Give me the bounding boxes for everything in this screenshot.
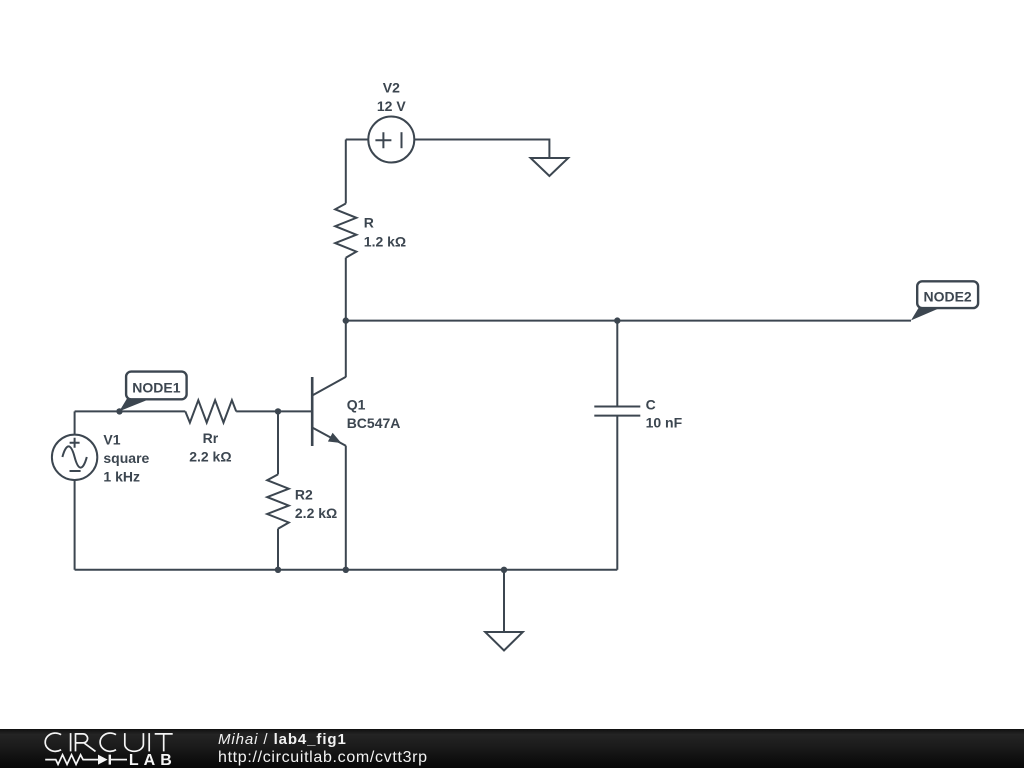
V1 plus symbol xyxy=(70,438,80,448)
svg-text:NODE1: NODE1 xyxy=(132,379,180,395)
svg-text:Rr: Rr xyxy=(203,430,219,446)
wire NODE1 to Rr xyxy=(75,410,186,412)
V2 plus symbol xyxy=(375,132,391,148)
resistor R2 zigzag xyxy=(267,474,289,528)
svg-text:2.2 kΩ: 2.2 kΩ xyxy=(295,505,337,521)
resistor R zigzag xyxy=(335,204,356,258)
logo letter C xyxy=(100,733,116,751)
transistor Q1 emitter diagonal xyxy=(312,428,346,446)
wire node horizontal NODE2 net xyxy=(346,320,911,322)
wire emitter vertical xyxy=(345,446,347,570)
svg-text:V1: V1 xyxy=(103,431,120,447)
svg-text:NODE2: NODE2 xyxy=(923,289,971,305)
transistor Q1 base bar xyxy=(311,377,314,446)
junction node at R bottom xyxy=(343,317,349,323)
footer titles xyxy=(218,731,428,767)
svg-text:10 nF: 10 nF xyxy=(646,415,683,431)
logo letter I xyxy=(70,733,72,751)
wire R bottom to node xyxy=(345,258,347,321)
wire V2 left vertical drop to R xyxy=(345,140,347,204)
svg-text:Q1: Q1 xyxy=(347,396,366,412)
svg-text:LAB: LAB xyxy=(129,752,177,768)
wire V2 right to ground xyxy=(408,140,549,159)
wire ground stem bottom xyxy=(503,570,505,632)
logo letter I xyxy=(148,733,150,751)
logo diode bar xyxy=(109,755,111,765)
ground top right triangle xyxy=(531,158,569,176)
svg-text:12 V: 12 V xyxy=(377,98,406,114)
svg-text:2.2 kΩ: 2.2 kΩ xyxy=(189,449,231,465)
NODE2 flag tail xyxy=(911,308,941,321)
wire bottom rail xyxy=(75,569,618,571)
wire capacitor bottom lead xyxy=(616,416,618,570)
V1 sine wave xyxy=(62,446,86,467)
svg-text:V2: V2 xyxy=(383,79,400,95)
logo resistor zigzag xyxy=(45,755,98,765)
wire V1 bottom lead xyxy=(74,475,76,570)
transistor Q1 collector diagonal xyxy=(312,377,346,396)
svg-text:R: R xyxy=(364,214,374,230)
V1 minus symbol xyxy=(70,470,81,472)
logo letter R xyxy=(76,733,96,751)
wire Rr to base node xyxy=(236,410,278,412)
junction node ground bottom rail xyxy=(501,567,507,573)
svg-text:C: C xyxy=(646,396,656,412)
footer bar xyxy=(0,729,1024,768)
resistor Rr zigzag xyxy=(185,400,236,422)
svg-text:square: square xyxy=(103,450,149,466)
logo letter C xyxy=(45,733,61,751)
svg-text:R2: R2 xyxy=(295,487,313,503)
wire V2 left horizontal xyxy=(346,139,375,141)
svg-text:1 kHz: 1 kHz xyxy=(103,468,140,484)
logo lead wire to LAB xyxy=(111,759,127,761)
capacitor C plates xyxy=(594,407,640,416)
svg-text:1.2 kΩ: 1.2 kΩ xyxy=(364,233,406,249)
wire V1 top lead xyxy=(74,411,76,440)
transistor Q1 emitter arrow xyxy=(328,433,341,443)
wire R2 bottom lead xyxy=(277,529,279,570)
logo letter T xyxy=(155,734,173,752)
NODE2 flag box xyxy=(917,281,978,308)
NODE1 flag box xyxy=(126,372,187,400)
svg-text:BC547A: BC547A xyxy=(347,415,401,431)
wire capacitor top lead xyxy=(616,321,618,407)
wire collector vertical xyxy=(345,321,347,378)
logo letter U xyxy=(125,733,144,751)
NODE1 flag tail xyxy=(119,399,151,412)
junction node R2 bottom rail xyxy=(275,567,281,573)
junction node at base/R2 xyxy=(275,408,281,414)
ground bottom triangle xyxy=(485,632,523,651)
junction node emitter bottom rail xyxy=(343,567,349,573)
junction node at NODE1 xyxy=(116,408,122,414)
junction node at capacitor top xyxy=(614,317,620,323)
wire R2 top lead xyxy=(277,411,279,474)
voltage source V2 circle xyxy=(368,117,414,163)
V2 bar symbol xyxy=(401,132,403,148)
voltage source V1 circle xyxy=(52,435,97,480)
logo diode triangle xyxy=(98,755,108,765)
wire base xyxy=(278,410,311,412)
